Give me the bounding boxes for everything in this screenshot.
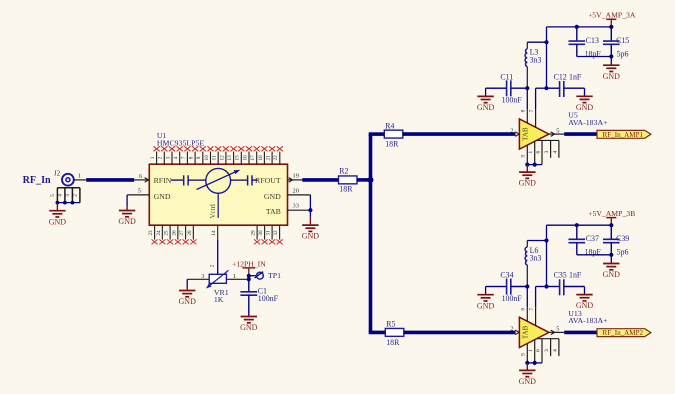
svg-text:GND: GND — [576, 301, 594, 310]
U5 bottom pins 9 1 6 3 4 — [521, 140, 559, 164]
C34 value 100nF — [502, 294, 523, 303]
svg-text:24: 24 — [156, 230, 162, 236]
svg-text:RFIN: RFIN — [154, 176, 172, 185]
wire decoupling bottom link — [577, 54, 614, 58]
U13 pin 5 output — [549, 326, 564, 335]
wire pin 8 to bias node — [526, 88, 528, 109]
svg-text:100nF: 100nF — [502, 294, 523, 303]
U1 pin 14 (Vctrl) — [211, 225, 218, 240]
svg-text:2: 2 — [158, 156, 164, 159]
ground U13 — [519, 363, 537, 386]
R4 value 18R — [385, 140, 399, 149]
U1 bottom pin 25 with no-connect X — [164, 225, 174, 244]
svg-text:29: 29 — [251, 230, 257, 236]
svg-text:26: 26 — [171, 230, 177, 236]
svg-text:1: 1 — [528, 349, 534, 352]
svg-text:3: 3 — [165, 156, 171, 159]
svg-text:GND: GND — [477, 301, 495, 310]
svg-text:10: 10 — [204, 155, 210, 161]
U1 Vctrl label — [209, 204, 217, 218]
svg-text:RF_In: RF_In — [23, 175, 51, 186]
wire amp ground bus — [525, 163, 542, 167]
C13 value 18pF — [585, 49, 602, 58]
connector J2 coax symbol — [62, 174, 74, 186]
U1 pin name RFIN — [154, 176, 172, 185]
junction bias node — [525, 284, 529, 288]
junction rail C13 — [575, 223, 579, 227]
U1 pin 5 GND — [127, 188, 149, 195]
svg-text:25: 25 — [164, 230, 170, 236]
svg-text:6: 6 — [139, 173, 142, 180]
ground C34 — [477, 294, 495, 310]
svg-text:GND: GND — [519, 179, 537, 188]
U1 top pin 17 with no-connect X — [250, 146, 260, 164]
U1 top pin 13 with no-connect X — [227, 146, 237, 164]
J2 pin 1 — [74, 172, 86, 180]
U1 pin name TAB — [266, 207, 281, 216]
op-amp U13 triangle AVA-183A+ — [519, 317, 549, 347]
svg-text:8: 8 — [521, 109, 527, 112]
wire C11 to ground — [485, 88, 487, 96]
svg-text:30: 30 — [258, 230, 264, 236]
ground C15 — [603, 65, 621, 81]
svg-text:3n3: 3n3 — [530, 254, 542, 263]
wire C35 to ground — [584, 287, 586, 295]
U5 pin 5 output — [549, 127, 564, 136]
C11 value 100nF — [502, 96, 523, 105]
TP1 designator — [268, 271, 281, 280]
U1 top pin 12 with no-connect X — [219, 146, 229, 164]
svg-text:2: 2 — [510, 326, 513, 333]
capacitor C15 5p6 — [603, 27, 620, 57]
U1 top pin 4 with no-connect X — [173, 146, 183, 164]
svg-text:2: 2 — [209, 264, 215, 267]
svg-text:TAB: TAB — [522, 127, 530, 141]
wire U1 RFOUT to R2 (thick) — [302, 178, 338, 182]
ground C39 — [603, 263, 621, 279]
U1 pin name GND (right) — [264, 192, 281, 201]
ground C11 — [477, 96, 495, 112]
capacitor C34 100nF — [486, 279, 528, 295]
U1 top pin 18 with no-connect X — [258, 146, 268, 164]
wire pin 7 to Vcc node — [536, 287, 547, 308]
svg-text:C37: C37 — [586, 234, 599, 243]
capacitor C35 1nF — [547, 279, 585, 295]
svg-text:C39: C39 — [616, 234, 629, 243]
U1 internal Vctrl line — [217, 193, 219, 218]
capacitor C39 5p6 — [603, 225, 620, 255]
U13 bottom pins 9 1 6 3 4 — [521, 339, 559, 363]
wire Vcc rail horizontal — [547, 224, 612, 226]
L3 value 3n3 — [530, 55, 542, 64]
svg-text:1: 1 — [528, 151, 534, 154]
svg-text:5p6: 5p6 — [617, 49, 629, 58]
C35 value 1nF — [569, 271, 582, 280]
svg-text:1K: 1K — [214, 295, 224, 304]
U1 top pin 2 with no-connect X — [158, 146, 168, 164]
ground C1 — [240, 316, 258, 332]
R4 designator — [385, 121, 394, 130]
svg-text:HMC935LP5E: HMC935LP5E — [157, 138, 204, 147]
U1 top pin 8 with no-connect X — [189, 146, 199, 164]
svg-text:6: 6 — [536, 349, 542, 352]
svg-text:27: 27 — [179, 230, 185, 236]
svg-text:R4: R4 — [385, 121, 394, 130]
U13 pin 7 — [529, 307, 536, 326]
wire pin5 down — [126, 195, 128, 207]
svg-text:17: 17 — [250, 155, 256, 161]
svg-text:RF_In_AMP2: RF_In_AMP2 — [602, 329, 643, 337]
svg-text:16: 16 — [242, 155, 248, 161]
wire junction to TP1 — [249, 275, 256, 277]
svg-text:9: 9 — [196, 156, 202, 159]
VR1 value 1K — [214, 295, 224, 304]
U13 designator — [568, 309, 582, 318]
svg-text:RF_In_AMP1: RF_In_AMP1 — [602, 131, 643, 139]
svg-text:1nF: 1nF — [569, 271, 582, 280]
svg-text:4: 4 — [552, 151, 558, 154]
U13 pin 8 — [521, 307, 528, 321]
wire R2 to junction (thick) — [357, 178, 371, 182]
svg-text:GND: GND — [302, 232, 320, 241]
svg-text:18R: 18R — [386, 338, 400, 347]
C37 designator — [586, 234, 599, 243]
svg-text:31: 31 — [266, 230, 272, 236]
L6 designator — [530, 246, 539, 255]
svg-text:RFOUT: RFOUT — [255, 176, 281, 185]
svg-text:C11: C11 — [500, 72, 513, 81]
wire U13 output to port (thick) — [564, 331, 597, 335]
U1 bottom pin 31 with no-connect X — [266, 225, 276, 244]
svg-text:7: 7 — [529, 308, 535, 311]
U1 bottom pin 28 with no-connect X — [187, 225, 197, 244]
svg-text:4: 4 — [58, 194, 64, 197]
svg-text:1: 1 — [150, 156, 156, 159]
U1 top pin 9 with no-connect X — [196, 146, 206, 164]
svg-text:GND: GND — [49, 217, 67, 226]
junction rail power stem — [609, 25, 613, 29]
U1 internal coupling capacitor (input) — [171, 175, 206, 185]
resistor R2 — [339, 176, 358, 184]
wire junction down — [309, 210, 311, 217]
U1 top pin 21 with no-connect X — [266, 146, 276, 164]
VR1 designator — [214, 288, 229, 297]
svg-text:12: 12 — [219, 155, 225, 161]
U1 internal coupling capacitor (output) — [231, 175, 258, 185]
svg-text:GND: GND — [519, 377, 537, 386]
VR1 wiper pin 2 number — [209, 264, 215, 267]
U1 bottom pin 30 with no-connect X — [258, 225, 268, 244]
L6 value 3n3 — [530, 254, 542, 263]
wire trunk vertical (thick) — [369, 134, 373, 332]
wire Vcc rail horizontal — [547, 26, 612, 28]
power port +5V_AMP_3A — [588, 11, 636, 27]
svg-text:19: 19 — [293, 172, 299, 179]
port RF_In_AMP1 — [597, 130, 651, 138]
svg-text:GND: GND — [179, 297, 197, 306]
svg-text:GND: GND — [477, 103, 495, 112]
R5 designator — [386, 320, 395, 329]
J2 shield pins 5 4 3 2 — [50, 188, 80, 203]
U1 bottom pin 26 with no-connect X — [171, 225, 181, 244]
svg-text:GND: GND — [154, 192, 171, 201]
op-amp U5 triangle AVA-183A+ — [519, 119, 549, 149]
wire Vcc rail drop — [546, 225, 548, 286]
svg-text:2: 2 — [510, 127, 513, 134]
svg-text:22: 22 — [273, 155, 279, 161]
ground C12 — [576, 96, 594, 112]
U1 top pin 11 with no-connect X — [212, 146, 222, 164]
svg-text:6: 6 — [536, 151, 542, 154]
wire VR1 pin3 down — [186, 279, 188, 287]
U1 top pin 10 with no-connect X — [204, 146, 214, 164]
svg-text:21: 21 — [266, 155, 272, 161]
C15 designator — [616, 36, 629, 45]
C34 designator — [500, 271, 513, 280]
svg-text:GND: GND — [264, 192, 281, 201]
C39 designator — [616, 234, 629, 243]
wire U5 output to port (thick) — [564, 132, 597, 136]
C12 designator — [554, 72, 567, 81]
svg-text:7: 7 — [529, 109, 535, 112]
U1 pin name RFOUT — [255, 176, 281, 185]
U1 pin 19 RFOUT — [288, 172, 303, 182]
wire L6 top link — [527, 238, 548, 242]
wire link to ground — [610, 57, 612, 65]
svg-text:5p6: 5p6 — [617, 248, 629, 257]
power port +12PH_IN — [232, 259, 266, 275]
svg-text:9: 9 — [521, 155, 527, 158]
ground VR1 — [179, 287, 197, 306]
wire amp ground bus — [525, 361, 542, 365]
junction rail C13 — [575, 25, 579, 29]
svg-text:+12PH_IN: +12PH_IN — [232, 259, 266, 268]
inductor L6 3n3 — [525, 241, 527, 287]
svg-text:4: 4 — [552, 349, 558, 352]
U1 pin 20 GND — [288, 187, 311, 195]
capacitor C13 18pF — [569, 27, 586, 57]
op-amp U1 body HMC935LP5E — [149, 164, 287, 225]
U1 top pin 22 with no-connect X — [273, 146, 283, 164]
U1 bottom pin 32 with no-connect X — [273, 225, 283, 244]
svg-text:100nF: 100nF — [258, 294, 279, 303]
svg-text:32: 32 — [273, 230, 279, 236]
svg-text:18R: 18R — [339, 185, 353, 194]
VR1 pin 3 — [187, 273, 209, 280]
U1 top pin 7 with no-connect X — [181, 146, 191, 164]
wire Vcc rail drop — [546, 27, 548, 88]
C1 value 100nF — [258, 294, 279, 303]
svg-text:TP1: TP1 — [268, 271, 281, 280]
U1 bottom pin 23 with no-connect X — [148, 225, 158, 244]
amp U5 pin 2 — [510, 127, 519, 136]
svg-text:13: 13 — [227, 155, 233, 161]
svg-text:4: 4 — [173, 156, 179, 159]
U1 bottom pin 29 with no-connect X — [251, 225, 261, 244]
U5 pin 7 — [529, 109, 536, 128]
C13 designator — [586, 36, 599, 45]
wire R5 to amp pin 2 (thick) — [404, 331, 516, 335]
svg-text:TAB: TAB — [522, 325, 530, 339]
svg-text:GND: GND — [603, 270, 621, 279]
wire pin 7 to Vcc node — [536, 88, 547, 109]
svg-text:8: 8 — [189, 156, 195, 159]
U1 pin name GND (left) — [154, 192, 171, 201]
svg-text:GND: GND — [240, 323, 258, 332]
U1 top pin 15 with no-connect X — [235, 146, 245, 164]
svg-text:2: 2 — [73, 194, 79, 197]
U1 top pin 3 with no-connect X — [165, 146, 175, 164]
svg-text:11: 11 — [212, 155, 218, 160]
svg-text:3: 3 — [544, 151, 550, 154]
svg-text:C12: C12 — [554, 72, 567, 81]
capacitor C11 100nF — [486, 80, 528, 96]
junction rail power stem — [609, 223, 613, 227]
wire trunk to R4 (thick) — [369, 132, 385, 136]
svg-text:23: 23 — [148, 230, 154, 236]
amp U13 pin 2 — [510, 326, 519, 335]
svg-text:C13: C13 — [586, 36, 599, 45]
svg-text:18: 18 — [258, 155, 264, 161]
svg-text:C35: C35 — [554, 271, 567, 280]
wire R4 to amp pin 2 (thick) — [403, 132, 516, 136]
U1 top pin 1 with no-connect X — [150, 146, 160, 164]
svg-text:+5V_AMP_3B: +5V_AMP_3B — [588, 209, 635, 218]
U1 pin 33 TAB — [288, 203, 311, 211]
wire L3 top link — [527, 40, 548, 44]
junction Vcc node — [544, 86, 548, 90]
svg-text:7: 7 — [181, 156, 187, 159]
U13 value AVA-183A+ — [568, 316, 608, 325]
R2 designator — [339, 167, 348, 176]
svg-text:AVA-183A+: AVA-183A+ — [568, 316, 608, 325]
ground U5 — [519, 165, 537, 188]
svg-text:3n3: 3n3 — [530, 55, 542, 64]
U1 bottom pin 24 with no-connect X — [156, 225, 166, 244]
VR1 pin 1 — [226, 273, 248, 280]
svg-text:5: 5 — [50, 194, 56, 197]
svg-text:GND: GND — [603, 72, 621, 81]
svg-text:1nF: 1nF — [569, 72, 582, 81]
junction node split — [368, 177, 374, 183]
L3 designator — [530, 48, 539, 57]
wire C34 to ground — [485, 287, 487, 295]
ground U1 TAB — [302, 218, 320, 241]
svg-text:1: 1 — [78, 172, 81, 179]
resistor R5 — [385, 328, 404, 336]
junction node Vctrl — [247, 274, 251, 282]
svg-text:18R: 18R — [385, 140, 399, 149]
connector J2 designator — [54, 170, 61, 178]
svg-text:R5: R5 — [386, 320, 395, 329]
wire pin20 down to pin33 — [309, 195, 311, 210]
svg-text:C34: C34 — [500, 271, 513, 280]
svg-text:14: 14 — [211, 230, 217, 236]
C1 designator — [258, 286, 267, 295]
svg-text:20: 20 — [293, 187, 299, 194]
port RF_In_AMP2 — [597, 329, 651, 337]
svg-text:3: 3 — [65, 194, 71, 197]
test point TP1 — [255, 272, 264, 279]
wire decoupling bottom link — [577, 253, 614, 257]
U1 internal phase shifter circle with arrow — [197, 168, 241, 193]
potentiometer VR1 body — [206, 270, 229, 288]
junction pin20/pin33 — [308, 208, 312, 212]
ground C35 — [576, 294, 594, 310]
C37 value 18pF — [585, 248, 602, 257]
svg-text:8: 8 — [521, 308, 527, 311]
U5 value AVA-183A+ — [568, 118, 608, 127]
U1 top pin 16 with no-connect X — [242, 146, 252, 164]
wire link to ground — [610, 255, 612, 263]
C11 designator — [500, 72, 513, 81]
svg-text:TAB: TAB — [266, 207, 281, 216]
svg-text:5: 5 — [556, 127, 559, 134]
capacitor C12 1nF — [547, 81, 585, 97]
junction bias node — [525, 86, 529, 90]
capacitor C1 — [240, 281, 257, 316]
svg-text:5: 5 — [138, 188, 141, 195]
C12 value 1nF — [569, 72, 582, 81]
svg-text:28: 28 — [187, 230, 193, 236]
svg-text:C15: C15 — [616, 36, 629, 45]
C39 value 5p6 — [617, 248, 629, 257]
svg-text:5: 5 — [556, 326, 559, 333]
wire J2 shield bus — [56, 201, 80, 205]
wire U1 pin14 to VR1 wiper — [217, 240, 219, 274]
svg-text:AVA-183A+: AVA-183A+ — [568, 118, 608, 127]
wire trunk to R5 (thick) — [369, 331, 386, 335]
capacitor C37 18pF — [569, 225, 586, 255]
ground U1 pin 5 — [118, 207, 136, 227]
svg-text:3: 3 — [544, 349, 550, 352]
svg-text:R2: R2 — [339, 167, 348, 176]
net label RF_In — [23, 175, 51, 186]
U1 bottom pin 27 with no-connect X — [179, 225, 189, 244]
svg-text:GND: GND — [118, 217, 136, 226]
svg-text:33: 33 — [293, 203, 299, 210]
C15 value 5p6 — [617, 49, 629, 58]
wire pin 8 to bias node — [526, 287, 528, 308]
svg-text:Vctrl: Vctrl — [209, 204, 217, 218]
wire J2 to U1 RFIN (thick) — [86, 178, 134, 182]
svg-text:100nF: 100nF — [502, 96, 523, 105]
svg-text:+5V_AMP_3A: +5V_AMP_3A — [588, 11, 636, 20]
C35 designator — [554, 271, 567, 280]
svg-text:15: 15 — [235, 155, 241, 161]
junction Vcc node — [544, 284, 548, 288]
wire C12 to ground — [584, 88, 586, 96]
U1 pin 6 RFIN — [134, 173, 149, 182]
U5 pin 8 — [521, 109, 528, 123]
U1 value HMC935LP5E — [157, 138, 204, 147]
svg-text:GND: GND — [576, 103, 594, 112]
power port +5V_AMP_3B — [588, 209, 635, 225]
svg-text:3: 3 — [201, 273, 204, 280]
U1 designator — [157, 131, 167, 140]
R5 value 18R — [386, 338, 400, 347]
svg-text:9: 9 — [521, 353, 527, 356]
resistor R4 — [384, 130, 403, 138]
ground J2 shield — [49, 203, 67, 227]
svg-text:1: 1 — [233, 273, 236, 280]
inductor L3 3n3 — [525, 42, 527, 88]
R2 value 18R — [339, 185, 353, 194]
U5 designator — [568, 111, 578, 120]
svg-text:J2: J2 — [54, 170, 61, 178]
